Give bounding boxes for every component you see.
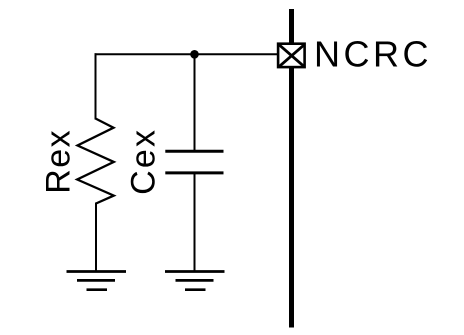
- wire: capacitor bottom plate to ground: [194, 173, 196, 272]
- wire: resistor bottom to ground: [95, 203, 97, 272]
- pin NCRC: crossed box: [278, 44, 305, 67]
- svg-text:Rex: Rex: [39, 129, 77, 194]
- capacitor Cex: [165, 151, 223, 173]
- wire: horizontal net from corner to pin: [95, 53, 280, 55]
- ground (left): [67, 272, 127, 290]
- wire: vertical drop to resistor top: [95, 53, 97, 119]
- wire: junction down to capacitor top plate: [194, 54, 196, 151]
- svg-text:NCRC: NCRC: [314, 33, 432, 74]
- ground (right): [165, 272, 225, 290]
- svg-text:Cex: Cex: [125, 128, 163, 195]
- IC boundary: thick vertical line: [289, 9, 294, 328]
- resistor Rex: [77, 119, 114, 204]
- node: junction dot: [190, 50, 199, 59]
